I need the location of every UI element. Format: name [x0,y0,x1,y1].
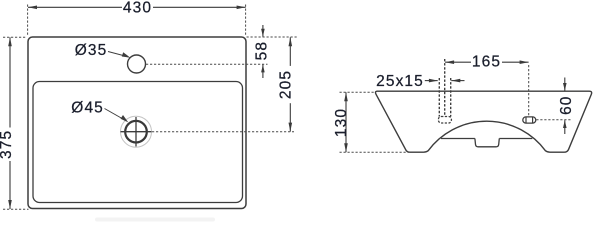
dim 60 arrows [564,78,566,91]
dim 430 extension line left [27,5,29,37]
leader O45 [105,109,127,122]
svg-text:Ø35: Ø35 [75,42,108,59]
faucet hole hidden right edge [450,78,452,117]
basin outer rim (top view) [28,37,246,209]
faint artifact smudge [95,218,215,222]
dim 25x15 left arrow [425,80,438,82]
basin front profile outline [375,91,591,152]
overflow hole (front) [523,117,536,123]
drain crosshair vertical [135,117,137,147]
rear edge chord line right [499,138,532,140]
dim 60 extension (overflow centerline) [536,119,570,121]
dim 375 extension top [3,36,27,38]
dim 165 line [445,61,471,63]
dim 205 line [289,37,291,66]
basin inner bowl edge (top view) [33,82,243,203]
drain hole outer thin circle [121,116,152,147]
drain outlet tab [475,139,499,147]
leader O35 [108,52,128,57]
faucet hole bottom counterbore [438,117,451,124]
dim 165 right extension [528,65,530,116]
faucet hole hidden left edge [438,78,440,117]
dim 375 extension bottom [3,208,29,210]
svg-text:205: 205 [277,70,294,99]
rear edge chord line left [441,138,475,140]
dim 375 line [9,37,11,127]
faucet hole hidden centerline [444,59,446,117]
svg-text:60: 60 [558,95,575,114]
dim 430 line [28,6,122,8]
svg-text:58: 58 [254,41,271,60]
dim 130 top extension [340,91,375,93]
drain hole bold circle (45 dia) [125,121,147,143]
faucet hole circle (35 dia) [128,55,146,73]
svg-text:25x15: 25x15 [376,73,424,90]
dim 58 arrows [262,25,264,37]
dim 58 top extension (shared with 205) [247,36,298,38]
overflow hole tangent line left [525,117,527,123]
overflow hole tangent line right [532,117,534,123]
dim 130 line [345,92,347,152]
dim 58 bottom extension (faucet centerline) [146,63,268,65]
svg-text:430: 430 [123,0,152,17]
svg-text:130: 130 [333,108,350,137]
svg-text:165: 165 [472,54,501,71]
dim 205 bottom extension (drain centerline) [152,131,294,133]
dim 430 extension line right [245,5,247,37]
drain crosshair horizontal [121,131,152,133]
dim 130 bottom extension [340,151,410,153]
svg-text:375: 375 [0,130,15,159]
dim 25x15 right arrow [451,80,464,82]
svg-text:Ø45: Ø45 [71,100,104,117]
